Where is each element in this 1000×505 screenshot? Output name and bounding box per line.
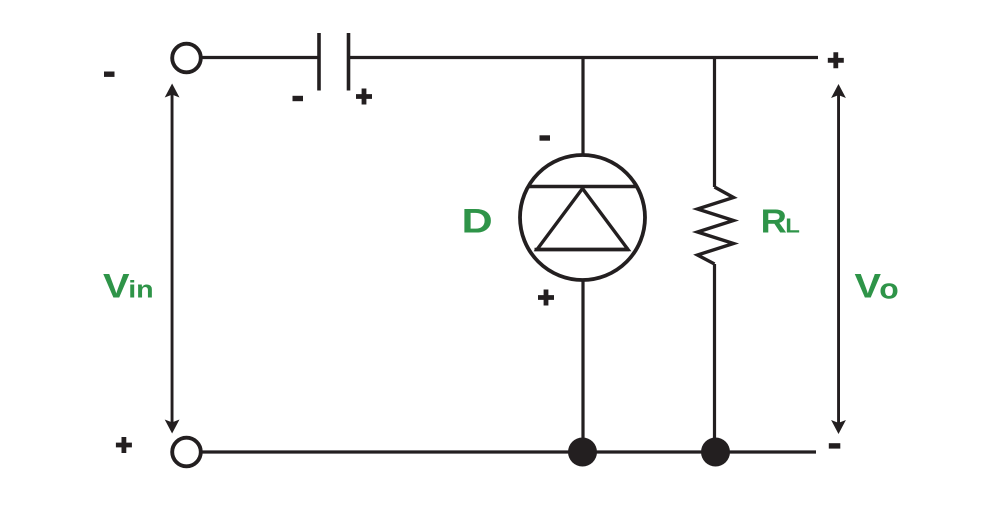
terminal top-left [172,44,201,73]
capacitor left plate [317,33,321,91]
wire bottom rail [201,450,816,453]
Vin measurement arrow (double headed) [165,84,180,434]
wire diode branch bottom (diode circle down to bottom rail) [581,279,584,452]
capacitor right plate [347,33,351,91]
svg-text:D: D [462,203,493,241]
svg-text:R: R [761,204,787,240]
polarity plus (input bottom-left) [116,437,132,453]
svg-text:o: o [879,273,898,305]
polarity minus (diode cathode top) [540,135,551,140]
wire resistor branch top (top rail down to zigzag) [713,58,716,188]
diode D cathode bar [528,185,637,188]
svg-text:L: L [785,214,800,237]
polarity plus (capacitor right) [356,89,372,105]
resistor RL zigzag [698,187,734,264]
svg-text:V: V [855,267,882,305]
wire resistor branch bottom (zigzag down to bottom rail) [713,264,716,452]
polarity plus (diode anode bottom) [538,290,554,306]
diode D circle [520,155,645,280]
junction node diode / bottom rail [568,438,597,467]
svg-text:V: V [103,267,130,305]
Vo measurement arrow (double headed) [831,84,846,434]
wire diode branch top (top rail down to diode circle) [581,58,584,157]
wire top-left (input terminal to capacitor left plate) [201,56,318,59]
polarity minus (input top-left) [104,72,115,77]
wire top-right (capacitor right plate to output plus) [350,56,818,59]
diode D anode base line [535,248,630,251]
svg-text:in: in [128,276,153,304]
diode D triangle [537,189,628,250]
polarity minus (capacitor left) [293,96,304,101]
polarity plus (output top-right) [828,52,844,68]
terminal bottom-left [172,438,201,467]
junction node resistor / bottom rail [701,438,730,467]
polarity minus (output bottom-right) [829,443,841,448]
